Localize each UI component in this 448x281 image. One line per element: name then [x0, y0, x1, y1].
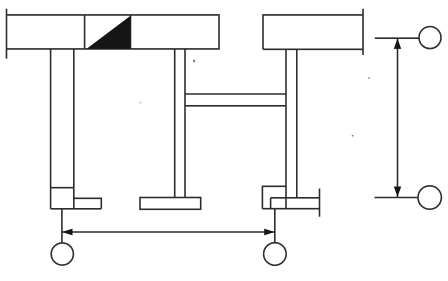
top-right dimension leader [375, 37, 419, 39]
vertical dimension line [397, 38, 399, 197]
bottom dim right arrowhead [264, 229, 275, 236]
crossbar top line [185, 93, 286, 95]
stray speck C [352, 135, 354, 137]
stray speck D [140, 102, 141, 103]
right datum circle [264, 243, 287, 266]
bottom dim left arrowhead [62, 229, 73, 236]
bottom-right datum circle [418, 186, 441, 209]
datum square frame [85, 15, 131, 49]
middle leg right line [184, 49, 186, 198]
datum triangle (filled) [87, 16, 131, 49]
right end cap [362, 9, 364, 55]
right extension line [274, 209, 276, 243]
right foot box [262, 186, 286, 208]
top-left beam [7, 15, 220, 49]
stray speck A [193, 60, 194, 62]
left extension line [61, 209, 63, 243]
right foot end tick [319, 189, 321, 217]
right leg left line [285, 49, 287, 208]
right leg right line [296, 49, 298, 198]
left leg right line [73, 49, 75, 209]
bottom-right dimension leader [375, 197, 418, 199]
crossbar bottom line [185, 105, 286, 107]
middle foot [140, 198, 201, 210]
top-right beam [263, 15, 363, 49]
bottom dimension line [62, 231, 274, 233]
vertical dim down arrowhead [394, 187, 401, 198]
top-right datum circle [419, 27, 441, 49]
left foot top line [51, 187, 74, 189]
vertical dim up arrowhead [394, 38, 401, 49]
stray speck B [368, 77, 370, 79]
left leg left line [50, 49, 52, 209]
right foot flange [262, 198, 319, 209]
left foot flange [51, 198, 102, 209]
middle leg left line [174, 49, 176, 198]
left end cap [6, 9, 8, 59]
left datum circle [51, 243, 73, 265]
